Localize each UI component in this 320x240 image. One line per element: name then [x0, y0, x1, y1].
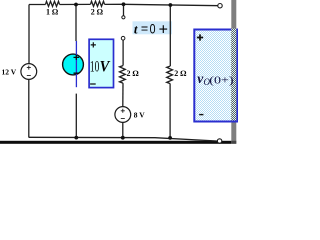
svg-text:(0+): (0+) [209, 74, 234, 86]
svg-text:8 V: 8 V [134, 110, 145, 119]
svg-text:t: t [134, 21, 138, 36]
svg-text:2 Ω: 2 Ω [174, 69, 186, 78]
svg-text:1 Ω: 1 Ω [46, 7, 58, 16]
svg-text:2 Ω: 2 Ω [127, 69, 139, 78]
svg-text:=: = [141, 22, 148, 36]
svg-text:2 Ω: 2 Ω [91, 7, 103, 16]
svg-text:10: 10 [90, 58, 100, 75]
svg-text:+: + [159, 22, 168, 39]
svg-text:12 V: 12 V [2, 68, 17, 77]
svg-text:0: 0 [150, 21, 156, 37]
svg-text:V: V [100, 58, 111, 75]
